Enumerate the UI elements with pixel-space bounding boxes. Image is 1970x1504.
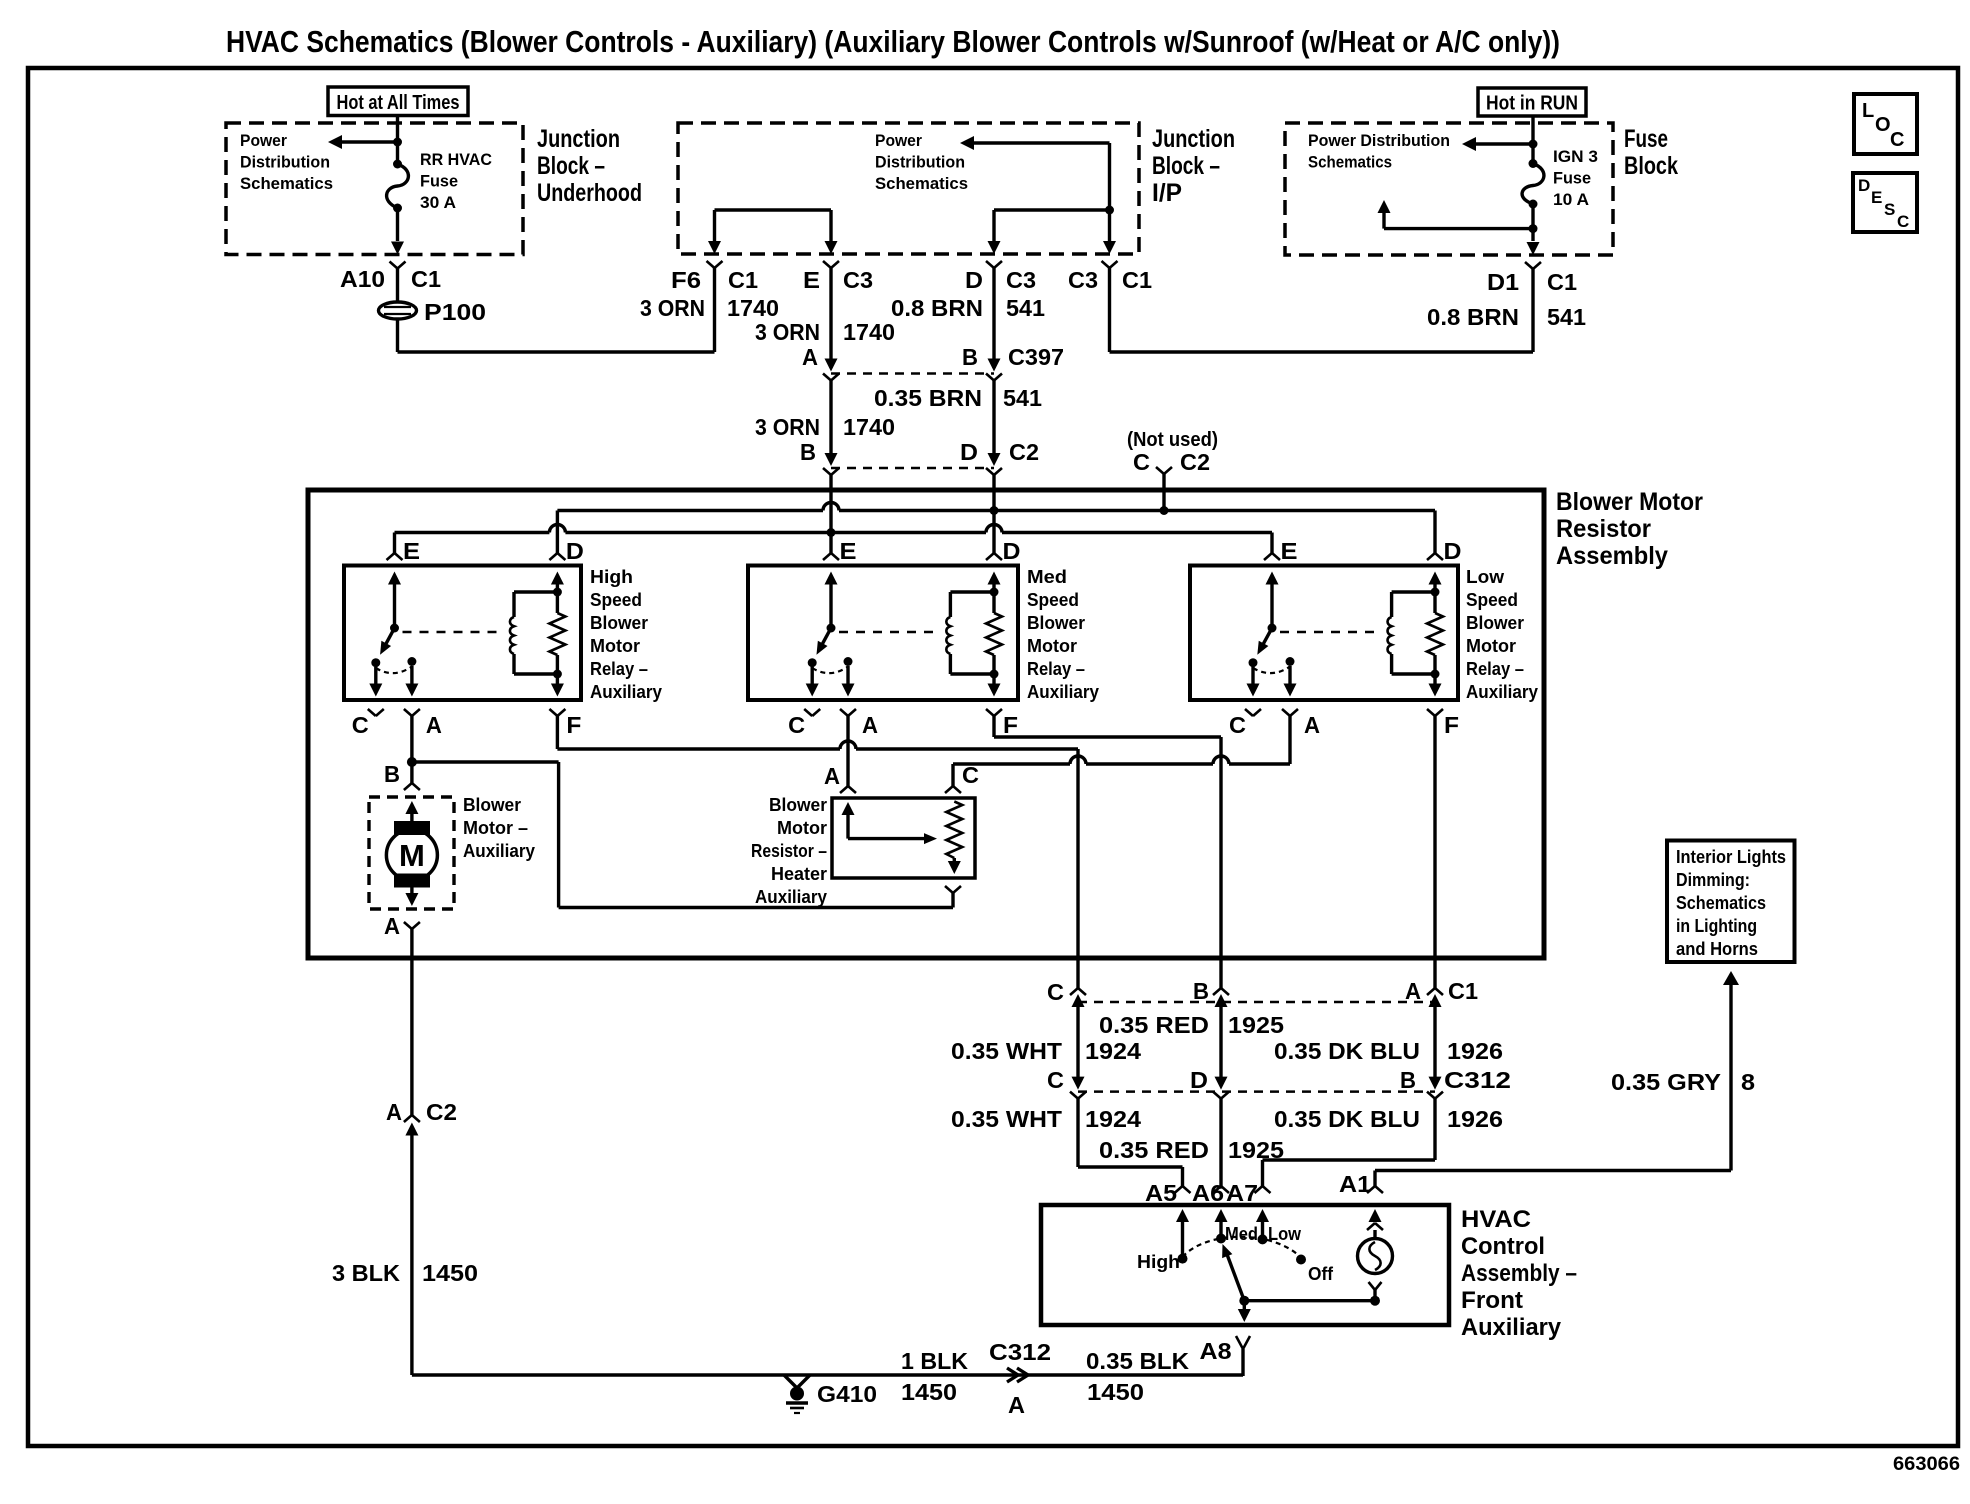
svg-text:C: C <box>352 712 369 738</box>
svg-text:C2: C2 <box>1180 449 1210 475</box>
svg-text:Fuse: Fuse <box>1624 125 1668 153</box>
svg-text:0.35 BRN: 0.35 BRN <box>874 385 982 411</box>
svg-text:Dimming:: Dimming: <box>1676 870 1750 890</box>
svg-text:Block –: Block – <box>1152 152 1220 180</box>
svg-text:Relay –: Relay – <box>1027 659 1085 679</box>
svg-text:Distribution: Distribution <box>875 153 965 172</box>
svg-text:A: A <box>1405 978 1421 1004</box>
svg-text:1740: 1740 <box>727 295 779 321</box>
svg-text:0.35 RED: 0.35 RED <box>1099 1012 1209 1038</box>
svg-text:1450: 1450 <box>422 1260 478 1286</box>
svg-text:30 A: 30 A <box>420 193 456 212</box>
svg-text:0.35 BLK: 0.35 BLK <box>1086 1348 1189 1374</box>
svg-text:IGN 3: IGN 3 <box>1553 147 1598 166</box>
svg-text:Auxiliary: Auxiliary <box>1466 682 1538 702</box>
svg-text:Resistor –: Resistor – <box>751 841 827 861</box>
svg-text:A: A <box>802 344 818 370</box>
svg-text:Block: Block <box>1624 152 1678 180</box>
svg-text:Distribution: Distribution <box>240 153 330 172</box>
svg-text:0.35 WHT: 0.35 WHT <box>951 1106 1062 1132</box>
svg-text:1450: 1450 <box>901 1379 957 1405</box>
svg-text:C: C <box>962 762 979 788</box>
svg-text:F: F <box>566 712 581 738</box>
svg-text:0.8 BRN: 0.8 BRN <box>1427 304 1519 330</box>
svg-text:Power: Power <box>875 131 922 150</box>
svg-text:Blower: Blower <box>1466 613 1524 633</box>
svg-text:C: C <box>1229 712 1246 738</box>
svg-text:0.35 GRY: 0.35 GRY <box>1611 1069 1721 1095</box>
svg-text:C: C <box>1897 212 1909 231</box>
svg-text:Auxiliary: Auxiliary <box>590 682 662 702</box>
svg-text:Resistor: Resistor <box>1556 515 1651 543</box>
svg-text:1740: 1740 <box>843 319 895 345</box>
svg-text:1925: 1925 <box>1228 1012 1284 1038</box>
svg-text:10 A: 10 A <box>1553 190 1589 209</box>
svg-text:D: D <box>1444 538 1462 564</box>
svg-text:Underhood: Underhood <box>537 179 642 207</box>
svg-text:A: A <box>1008 1392 1025 1418</box>
svg-text:C1: C1 <box>1448 978 1478 1004</box>
svg-text:1740: 1740 <box>843 414 895 440</box>
svg-text:C397: C397 <box>1008 344 1064 370</box>
svg-text:in Lighting: in Lighting <box>1676 916 1757 936</box>
svg-text:541: 541 <box>1006 295 1045 321</box>
svg-text:A5: A5 <box>1145 1180 1177 1206</box>
svg-text:C2: C2 <box>1009 439 1039 465</box>
svg-text:A: A <box>862 712 878 738</box>
svg-text:C: C <box>1890 129 1904 151</box>
svg-text:C: C <box>1047 1067 1064 1093</box>
svg-text:0.8 BRN: 0.8 BRN <box>891 295 983 321</box>
svg-text:A10: A10 <box>340 266 385 292</box>
svg-text:Motor –: Motor – <box>463 818 528 838</box>
svg-text:1926: 1926 <box>1447 1106 1503 1132</box>
svg-text:8: 8 <box>1741 1069 1755 1095</box>
svg-text:Relay –: Relay – <box>590 659 648 679</box>
svg-text:Motor: Motor <box>1466 636 1516 656</box>
svg-text:High: High <box>1137 1252 1180 1272</box>
svg-text:Motor: Motor <box>1027 636 1077 656</box>
svg-text:Fuse: Fuse <box>420 172 458 191</box>
svg-text:B: B <box>800 439 816 465</box>
svg-text:Assembly: Assembly <box>1556 542 1668 570</box>
svg-text:P100: P100 <box>424 299 486 325</box>
svg-text:1924: 1924 <box>1085 1106 1141 1132</box>
svg-text:E: E <box>840 538 857 564</box>
svg-text:B: B <box>962 344 978 370</box>
svg-text:E: E <box>1871 188 1882 207</box>
svg-text:D: D <box>1190 1067 1208 1093</box>
svg-text:Blower: Blower <box>590 613 648 633</box>
svg-text:Med: Med <box>1027 567 1067 587</box>
svg-text:HVAC: HVAC <box>1461 1206 1531 1233</box>
svg-text:C3: C3 <box>1006 267 1036 293</box>
svg-text:HVAC Schematics (Blower Contro: HVAC Schematics (Blower Controls - Auxil… <box>226 24 1560 59</box>
svg-text:B: B <box>384 761 400 787</box>
svg-text:Control: Control <box>1461 1233 1545 1260</box>
svg-text:A7: A7 <box>1226 1180 1258 1206</box>
svg-text:A6: A6 <box>1192 1180 1224 1206</box>
svg-text:Off: Off <box>1308 1264 1334 1284</box>
svg-text:Blower: Blower <box>769 795 827 815</box>
svg-text:Interior Lights: Interior Lights <box>1676 847 1786 867</box>
svg-text:1926: 1926 <box>1447 1038 1503 1064</box>
svg-text:A: A <box>384 913 400 939</box>
svg-text:Relay –: Relay – <box>1466 659 1524 679</box>
svg-text:C1: C1 <box>728 267 758 293</box>
svg-text:O: O <box>1875 114 1891 136</box>
svg-text:3 ORN: 3 ORN <box>640 295 705 321</box>
svg-text:Speed: Speed <box>1027 590 1079 610</box>
svg-text:3 ORN: 3 ORN <box>755 414 820 440</box>
svg-text:Heater: Heater <box>771 864 827 884</box>
svg-text:A: A <box>824 763 840 789</box>
svg-text:A8: A8 <box>1200 1338 1232 1364</box>
svg-text:F: F <box>1444 712 1459 738</box>
svg-text:Low: Low <box>1466 567 1505 587</box>
svg-text:C2: C2 <box>426 1099 457 1125</box>
svg-text:663066: 663066 <box>1893 1454 1960 1475</box>
svg-text:D: D <box>1003 538 1021 564</box>
svg-text:Schematics: Schematics <box>1308 153 1392 172</box>
svg-text:C: C <box>1047 979 1064 1005</box>
svg-text:C312: C312 <box>989 1339 1051 1365</box>
svg-text:I/P: I/P <box>1152 179 1182 207</box>
svg-text:D: D <box>1858 176 1870 195</box>
svg-text:C312: C312 <box>1444 1067 1511 1093</box>
svg-text:3 BLK: 3 BLK <box>332 1260 400 1286</box>
svg-text:1924: 1924 <box>1085 1038 1141 1064</box>
svg-text:(Not used): (Not used) <box>1127 429 1218 451</box>
svg-text:Schematics: Schematics <box>1676 893 1766 913</box>
svg-text:Motor: Motor <box>777 818 827 838</box>
svg-text:F6: F6 <box>671 267 701 293</box>
svg-text:Power: Power <box>240 131 287 150</box>
svg-text:0.35 WHT: 0.35 WHT <box>951 1038 1062 1064</box>
svg-text:Auxiliary: Auxiliary <box>755 887 827 907</box>
svg-text:and Horns: and Horns <box>1676 939 1758 959</box>
svg-text:Schematics: Schematics <box>240 174 333 193</box>
svg-text:Motor: Motor <box>590 636 640 656</box>
svg-text:A: A <box>386 1099 402 1125</box>
svg-text:D: D <box>960 439 978 465</box>
svg-text:C3: C3 <box>1068 267 1098 293</box>
svg-text:Auxiliary: Auxiliary <box>463 841 535 861</box>
svg-text:S: S <box>1884 200 1895 219</box>
svg-text:F: F <box>1003 712 1018 738</box>
svg-text:Hot at All Times: Hot at All Times <box>337 92 460 114</box>
svg-text:C1: C1 <box>411 266 441 292</box>
svg-text:Auxiliary: Auxiliary <box>1027 682 1099 702</box>
svg-text:Junction: Junction <box>537 125 620 153</box>
svg-text:Speed: Speed <box>1466 590 1518 610</box>
svg-text:Schematics: Schematics <box>875 174 968 193</box>
svg-text:Front: Front <box>1461 1287 1523 1314</box>
svg-text:Auxiliary: Auxiliary <box>1461 1314 1562 1341</box>
svg-text:E: E <box>403 538 420 564</box>
svg-text:Blower: Blower <box>463 795 521 815</box>
svg-text:Low: Low <box>1268 1224 1302 1244</box>
svg-text:E: E <box>1281 538 1298 564</box>
svg-text:M: M <box>399 838 425 873</box>
svg-text:Fuse: Fuse <box>1553 169 1591 188</box>
svg-text:B: B <box>1193 978 1209 1004</box>
svg-text:Block –: Block – <box>537 152 605 180</box>
svg-text:1 BLK: 1 BLK <box>901 1348 968 1374</box>
svg-text:A: A <box>426 712 442 738</box>
svg-text:541: 541 <box>1547 304 1586 330</box>
svg-text:E: E <box>803 267 820 293</box>
svg-text:Assembly –: Assembly – <box>1461 1260 1577 1287</box>
svg-text:541: 541 <box>1003 385 1042 411</box>
svg-text:Speed: Speed <box>590 590 642 610</box>
svg-text:0.35 DK BLU: 0.35 DK BLU <box>1274 1106 1420 1132</box>
svg-text:C3: C3 <box>843 267 873 293</box>
svg-text:A: A <box>1304 712 1320 738</box>
svg-text:1450: 1450 <box>1087 1379 1144 1405</box>
svg-text:C1: C1 <box>1547 269 1577 295</box>
svg-text:3 ORN: 3 ORN <box>755 319 820 345</box>
svg-text:Med: Med <box>1225 1224 1258 1244</box>
svg-text:D: D <box>965 267 983 293</box>
svg-text:0.35 DK BLU: 0.35 DK BLU <box>1274 1038 1420 1064</box>
svg-text:High: High <box>590 567 633 587</box>
svg-text:D1: D1 <box>1487 269 1519 295</box>
svg-text:RR HVAC: RR HVAC <box>420 150 492 169</box>
svg-text:G410: G410 <box>817 1381 877 1407</box>
svg-text:Junction: Junction <box>1152 125 1235 153</box>
svg-text:Hot in RUN: Hot in RUN <box>1486 93 1578 115</box>
svg-text:Blower: Blower <box>1027 613 1085 633</box>
svg-text:0.35 RED: 0.35 RED <box>1099 1137 1209 1163</box>
svg-text:C: C <box>788 712 805 738</box>
svg-text:C: C <box>1133 449 1150 475</box>
svg-text:Power Distribution: Power Distribution <box>1308 131 1450 150</box>
svg-text:A1: A1 <box>1339 1171 1371 1197</box>
svg-text:L: L <box>1862 100 1874 122</box>
svg-text:Blower Motor: Blower Motor <box>1556 488 1703 516</box>
svg-text:C1: C1 <box>1122 267 1152 293</box>
svg-text:B: B <box>1400 1067 1416 1093</box>
svg-text:D: D <box>566 538 584 564</box>
